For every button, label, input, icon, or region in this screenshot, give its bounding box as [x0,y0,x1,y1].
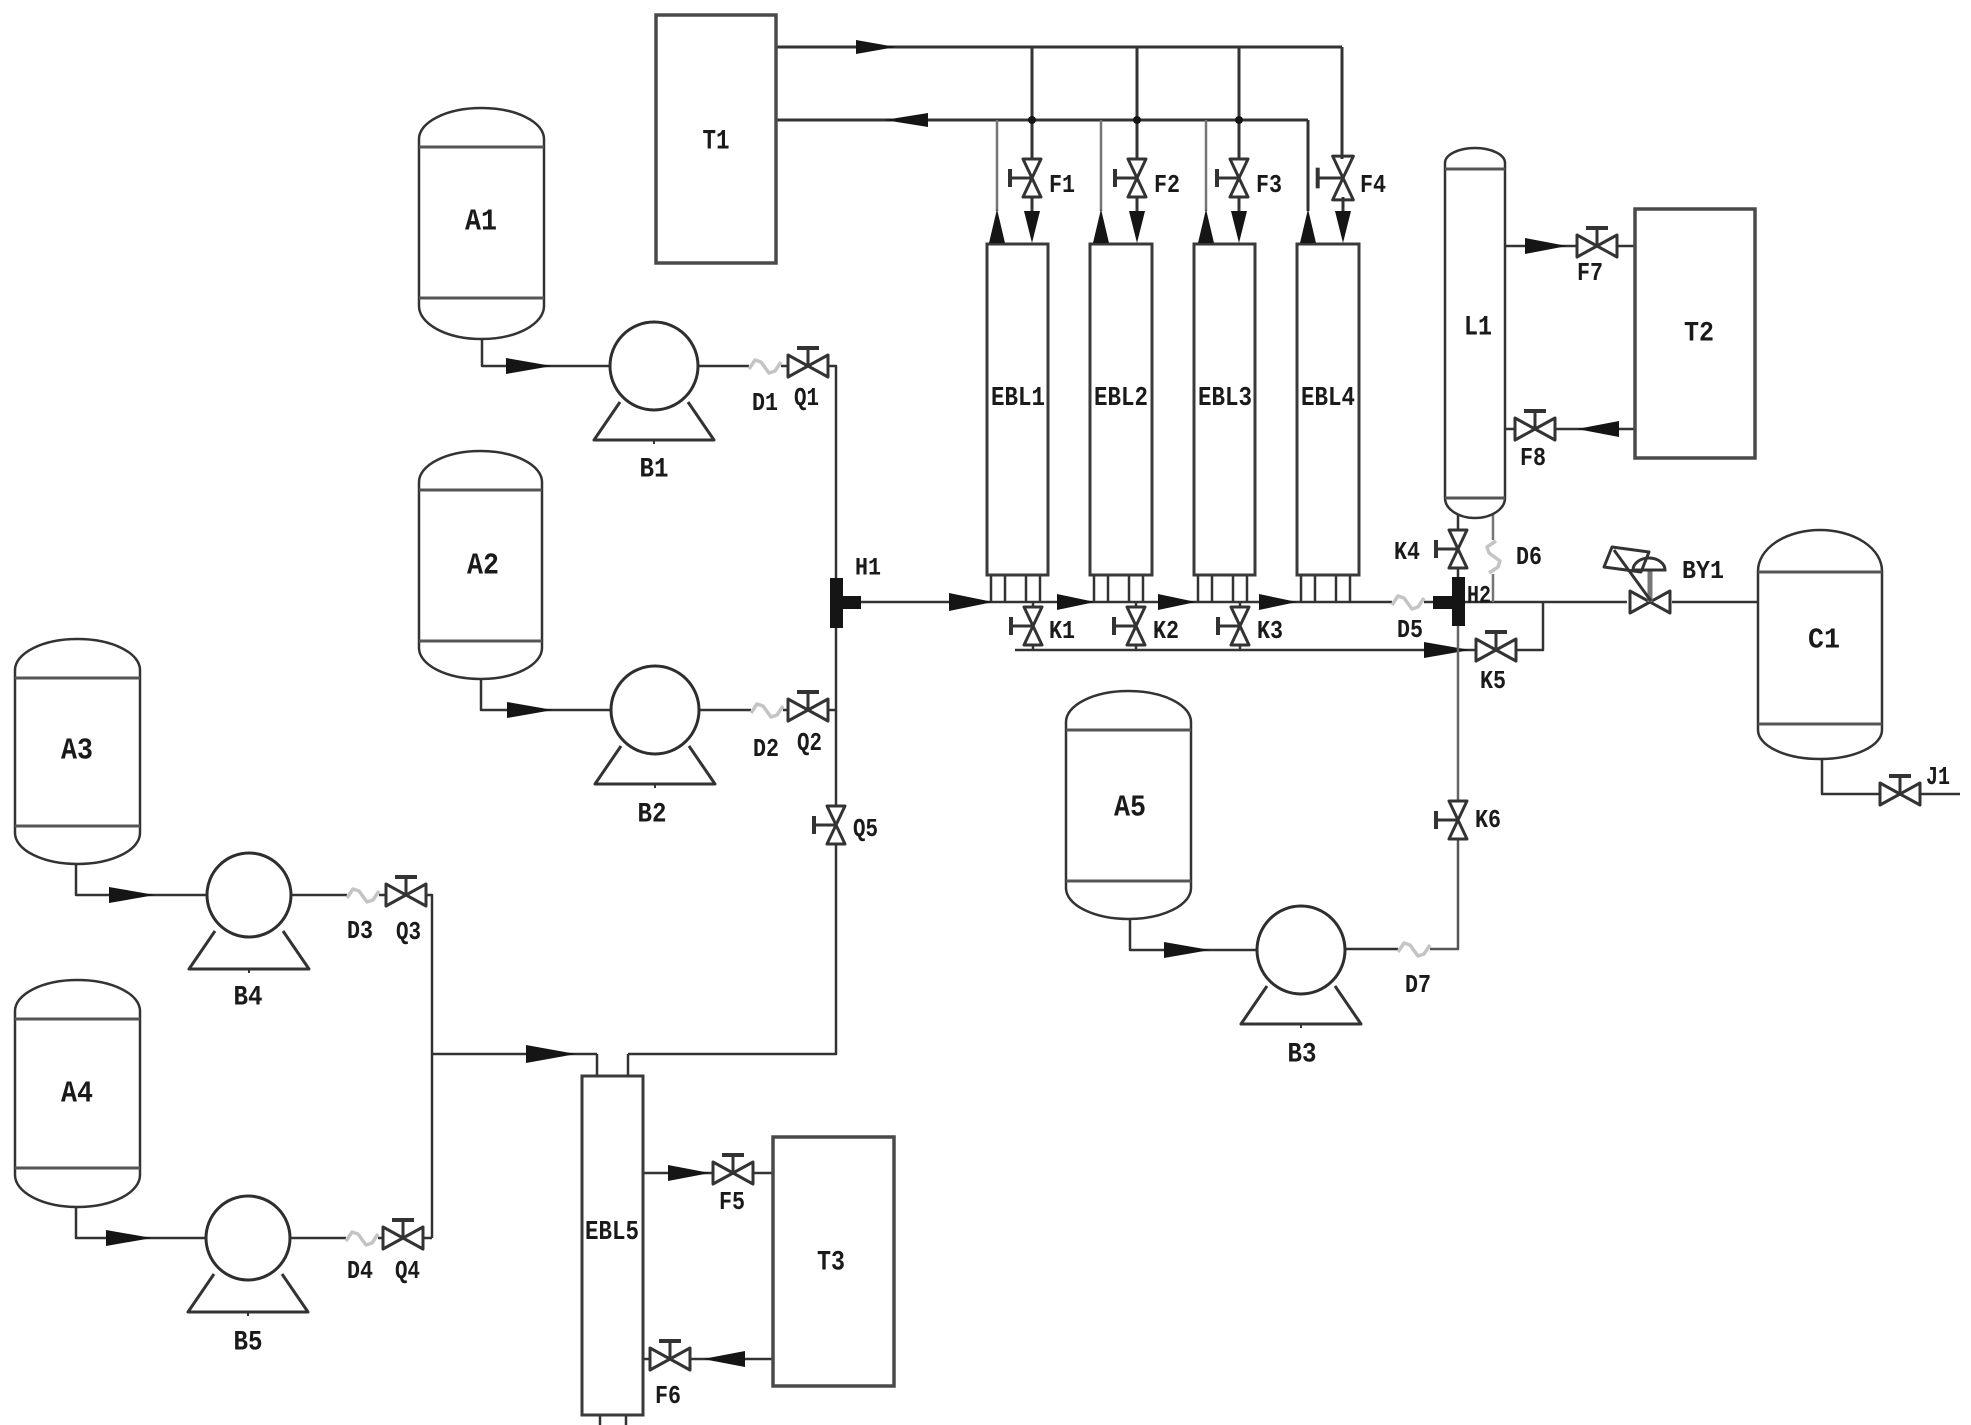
wire EBL1 top feed [996,120,999,211]
wire EBL3 bottom stubs [1198,575,1247,602]
svg-text:EBL5: EBL5 [585,1218,639,1248]
label EBL1 [991,384,1045,414]
column EBL3 [1194,244,1255,575]
wire A1 outlet [482,338,610,366]
svg-text:F8: F8 [1520,443,1546,473]
svg-text:K5: K5 [1480,666,1506,696]
valve J1 [1880,776,1920,805]
vessel A4 [15,980,140,1207]
svg-text:EBL4: EBL4 [1301,384,1355,414]
svg-text:F4: F4 [1360,170,1386,200]
label F6 [655,1381,681,1411]
wire F6 to EBL5 [643,1358,650,1361]
wire main reactor line [861,601,1433,604]
wire F2 to column [1136,197,1139,214]
valve F2 [1115,159,1146,197]
valve F3 [1217,159,1248,197]
vessel A1 [419,108,544,339]
arrow main line 2 [1057,594,1095,610]
arrow A4 outlet [106,1230,152,1246]
label K6 [1475,805,1501,835]
wire EBL5 feed header [432,1054,597,1076]
valve F7 [1577,228,1617,257]
pump B1 [594,322,714,444]
valve F6 [650,1341,690,1370]
label B5 [234,1328,263,1359]
label T2 [1684,319,1714,350]
svg-text:B2: B2 [638,800,667,831]
label K5 [1480,666,1506,696]
wire L1 to K4 [1457,512,1460,577]
label EBL4 [1301,384,1355,414]
label F7 [1577,258,1603,288]
wire B2 discharge [699,709,788,712]
svg-text:D2: D2 [753,734,779,764]
label Q2 [797,728,822,758]
arrow into EBL3 [1231,211,1247,243]
label T3 [817,1248,845,1279]
wire D7 to B3 [1345,948,1398,951]
wire A5 outlet [1130,919,1257,950]
wire K3 drop [1239,602,1242,651]
flex joint D2 [751,704,783,717]
arrow T3 to F6 [703,1351,745,1367]
wire C1 outlet [1822,759,1880,794]
label H2 [1467,582,1491,611]
vessel A3 [15,639,140,864]
arrow main line 3 [1158,594,1196,610]
valve K1 [1011,607,1042,645]
arrow supply header [856,40,896,54]
arrow T2 to F8 [1577,421,1619,437]
valve Q2 [788,692,828,721]
svg-text:D1: D1 [752,388,778,418]
wire EBL3 top feed [1205,120,1208,211]
arrow return header [884,113,928,127]
svg-text:Q2: Q2 [797,728,822,758]
label Q3 [396,917,421,947]
wire Q2 join [828,709,836,712]
svg-text:B5: B5 [234,1328,263,1359]
label A2 [467,549,499,584]
svg-text:Q5: Q5 [853,814,878,844]
wire K header [1015,649,1476,652]
svg-text:F7: F7 [1577,258,1603,288]
svg-text:D5: D5 [1397,615,1423,645]
label K3 [1257,616,1283,646]
wire T1 return header [776,120,1308,211]
svg-text:Q3: Q3 [396,917,421,947]
wire Q3 drop [426,895,432,1238]
inlet wedge EBL3 [1198,209,1214,243]
label D2 [753,734,779,764]
valve K4 [1436,530,1467,568]
svg-text:A4: A4 [61,1077,93,1112]
wire A4 outlet [76,1207,206,1238]
column EBL2 [1090,244,1152,575]
svg-text:H1: H1 [855,554,881,583]
label B4 [234,983,263,1014]
label D1 [752,388,778,418]
label K1 [1049,616,1075,646]
label J1 [1926,762,1950,792]
flex joint D1 [749,360,781,373]
arrow into EBL2 [1129,211,1145,243]
svg-text:T3: T3 [817,1248,845,1279]
arrow K header [1424,642,1470,658]
valve F1 [1010,159,1041,197]
junction dot F2 crossing [1133,116,1141,124]
wire F1 to column [1031,197,1034,214]
svg-text:K6: K6 [1475,805,1501,835]
pump B3 [1241,906,1361,1028]
label F2 [1154,170,1180,200]
flex joint D7 [1398,943,1430,956]
wire Q1 drop [828,366,836,578]
wire K2 drop [1135,602,1138,651]
arrow main line 1 [949,593,993,611]
svg-text:F5: F5 [719,1187,745,1217]
svg-text:T2: T2 [1684,319,1714,350]
label D5 [1397,615,1423,645]
svg-text:F3: F3 [1256,170,1282,200]
wire F5 to T3 [753,1172,773,1175]
svg-text:F1: F1 [1049,170,1075,200]
wire EBL4 bottom stubs [1301,575,1350,602]
svg-text:A1: A1 [465,205,497,240]
valve Q5 [814,806,845,844]
label T1 [703,127,730,158]
wire L1 bypass D6 [1492,513,1495,602]
arrow main line 4 [1259,594,1297,610]
column L1 [1445,148,1505,518]
arrow A3 outlet [109,887,155,903]
wire A3 outlet [76,864,207,895]
valve K2 [1114,607,1145,645]
arrow into EBL4 [1335,211,1351,243]
flex joint D3 [347,889,379,902]
label EBL2 [1094,384,1148,414]
label Q1 [794,383,819,413]
svg-text:C1: C1 [1808,624,1840,657]
column EBL1 [987,244,1048,575]
label D7 [1405,970,1431,1000]
svg-text:EBL3: EBL3 [1198,384,1252,414]
wire H2 to BY1 [1465,601,1627,604]
label K4 [1394,537,1420,567]
svg-text:B4: B4 [234,983,263,1014]
wire T1 supply header [776,47,1342,159]
svg-text:K1: K1 [1049,616,1075,646]
svg-text:Q4: Q4 [395,1256,420,1286]
junction dot F1 crossing [1028,116,1036,124]
svg-text:L1: L1 [1464,313,1492,344]
label A3 [61,734,93,769]
svg-text:BY1: BY1 [1682,556,1724,586]
valve Q4 [383,1220,423,1249]
label K2 [1153,616,1179,646]
wire F3 to column [1238,197,1241,214]
label Q4 [395,1256,420,1286]
svg-text:K3: K3 [1257,616,1283,646]
wire A2 outlet [481,679,611,710]
svg-text:A3: A3 [61,734,93,769]
svg-text:D4: D4 [347,1256,373,1286]
arrow EBL5 feed [526,1045,576,1063]
column EBL5 [582,1076,643,1415]
label C1 [1808,624,1840,657]
valve Q1 [788,348,828,377]
pump B5 [188,1196,308,1316]
label F1 [1049,170,1075,200]
wire B4 discharge [291,894,386,897]
label EBL3 [1198,384,1252,414]
label F3 [1256,170,1282,200]
tank T2 [1635,209,1755,458]
arrow into EBL1 [1024,211,1040,243]
wire K1 drop [1032,602,1035,651]
flex joint D5 [1392,596,1424,609]
svg-text:B1: B1 [640,455,669,486]
wire BY1 to C1 [1672,601,1758,604]
valve Q3 [386,877,426,906]
vessel A5 [1066,691,1191,919]
control valve BY1 [1604,547,1670,613]
wire J1 tail [1920,793,1960,796]
arrow A5 outlet [1164,942,1210,958]
arrow A2 outlet [507,702,553,718]
label D6 [1516,542,1542,572]
flex joint D4 [346,1232,378,1245]
inlet wedge EBL2 [1093,209,1109,243]
svg-text:Q1: Q1 [794,383,819,413]
wire H2 to K6 [1457,626,1460,801]
wire B5 discharge [290,1237,383,1240]
label B2 [638,800,667,831]
svg-text:T1: T1 [703,127,730,158]
inlet wedge EBL1 [989,209,1005,243]
label F4 [1360,170,1386,200]
inlet wedge EBL4 [1300,209,1316,243]
svg-text:EBL1: EBL1 [991,384,1045,414]
label A5 [1114,791,1146,826]
label EBL5 [585,1218,639,1248]
svg-text:J1: J1 [1926,762,1950,792]
valve K3 [1218,607,1249,645]
wire EBL5 bottom stub [600,1415,626,1425]
wire EBL5 to F5 [643,1172,713,1175]
flex joint D6 [1487,541,1500,573]
wire EBL1 bottom stubs [991,575,1040,602]
label B1 [640,455,669,486]
label Q5 [853,814,878,844]
junction dot F3 crossing [1235,116,1243,124]
valve F5 [713,1155,753,1184]
svg-text:D7: D7 [1405,970,1431,1000]
svg-text:A2: A2 [467,549,499,584]
svg-text:B3: B3 [1288,1040,1317,1071]
valve K6 [1436,801,1467,839]
wire F4 to column [1342,197,1345,214]
svg-text:F2: F2 [1154,170,1180,200]
svg-text:F6: F6 [655,1381,681,1411]
mixer H2 [1433,577,1465,626]
arrow A1 outlet [506,358,552,374]
mixer H1 [830,578,861,628]
valve F8 [1515,411,1555,440]
wire Q5 to EBL5 header [628,844,836,1054]
label L1 [1464,313,1492,344]
label B3 [1288,1040,1317,1071]
wire EBL2 bottom stubs [1094,575,1143,602]
wire F7 to T2 [1618,245,1635,248]
label H1 [855,554,881,583]
svg-text:D6: D6 [1516,542,1542,572]
label D4 [347,1256,373,1286]
valve K5 [1476,632,1516,661]
label D3 [347,916,373,946]
svg-text:EBL2: EBL2 [1094,384,1148,414]
vessel A2 [419,451,542,679]
valve F4 [1318,156,1354,200]
wire L1 to F7 [1505,245,1577,248]
wire T3 to F6 [690,1358,773,1361]
svg-text:H2: H2 [1467,582,1491,611]
label BY1 [1682,556,1724,586]
wire Q4 join [423,1237,432,1240]
wire K5 riser [1516,602,1543,650]
wire T2 to F8 [1556,428,1635,431]
svg-text:K4: K4 [1394,537,1420,567]
wire F8 to L1 [1505,428,1514,431]
vessel C1 [1758,530,1882,759]
column EBL4 [1297,244,1359,575]
tank T3 [773,1137,894,1386]
wire B1 discharge [698,365,788,368]
tank T1 [656,15,776,263]
svg-text:K2: K2 [1153,616,1179,646]
wire EBL2 top feed [1100,120,1103,211]
label A4 [61,1077,93,1112]
pump B4 [189,853,309,973]
wire EBL5 right stub [627,1054,630,1076]
svg-text:D3: D3 [347,916,373,946]
arrow L1 to F7 [1525,238,1567,254]
label F8 [1520,443,1546,473]
label A1 [465,205,497,240]
pump B2 [595,666,715,788]
arrow EBL5 to F5 [668,1165,710,1181]
svg-text:A5: A5 [1114,791,1146,826]
wire feed drop to Q5 [835,628,838,806]
wire K6 to D7 [1430,839,1458,949]
label F5 [719,1187,745,1217]
